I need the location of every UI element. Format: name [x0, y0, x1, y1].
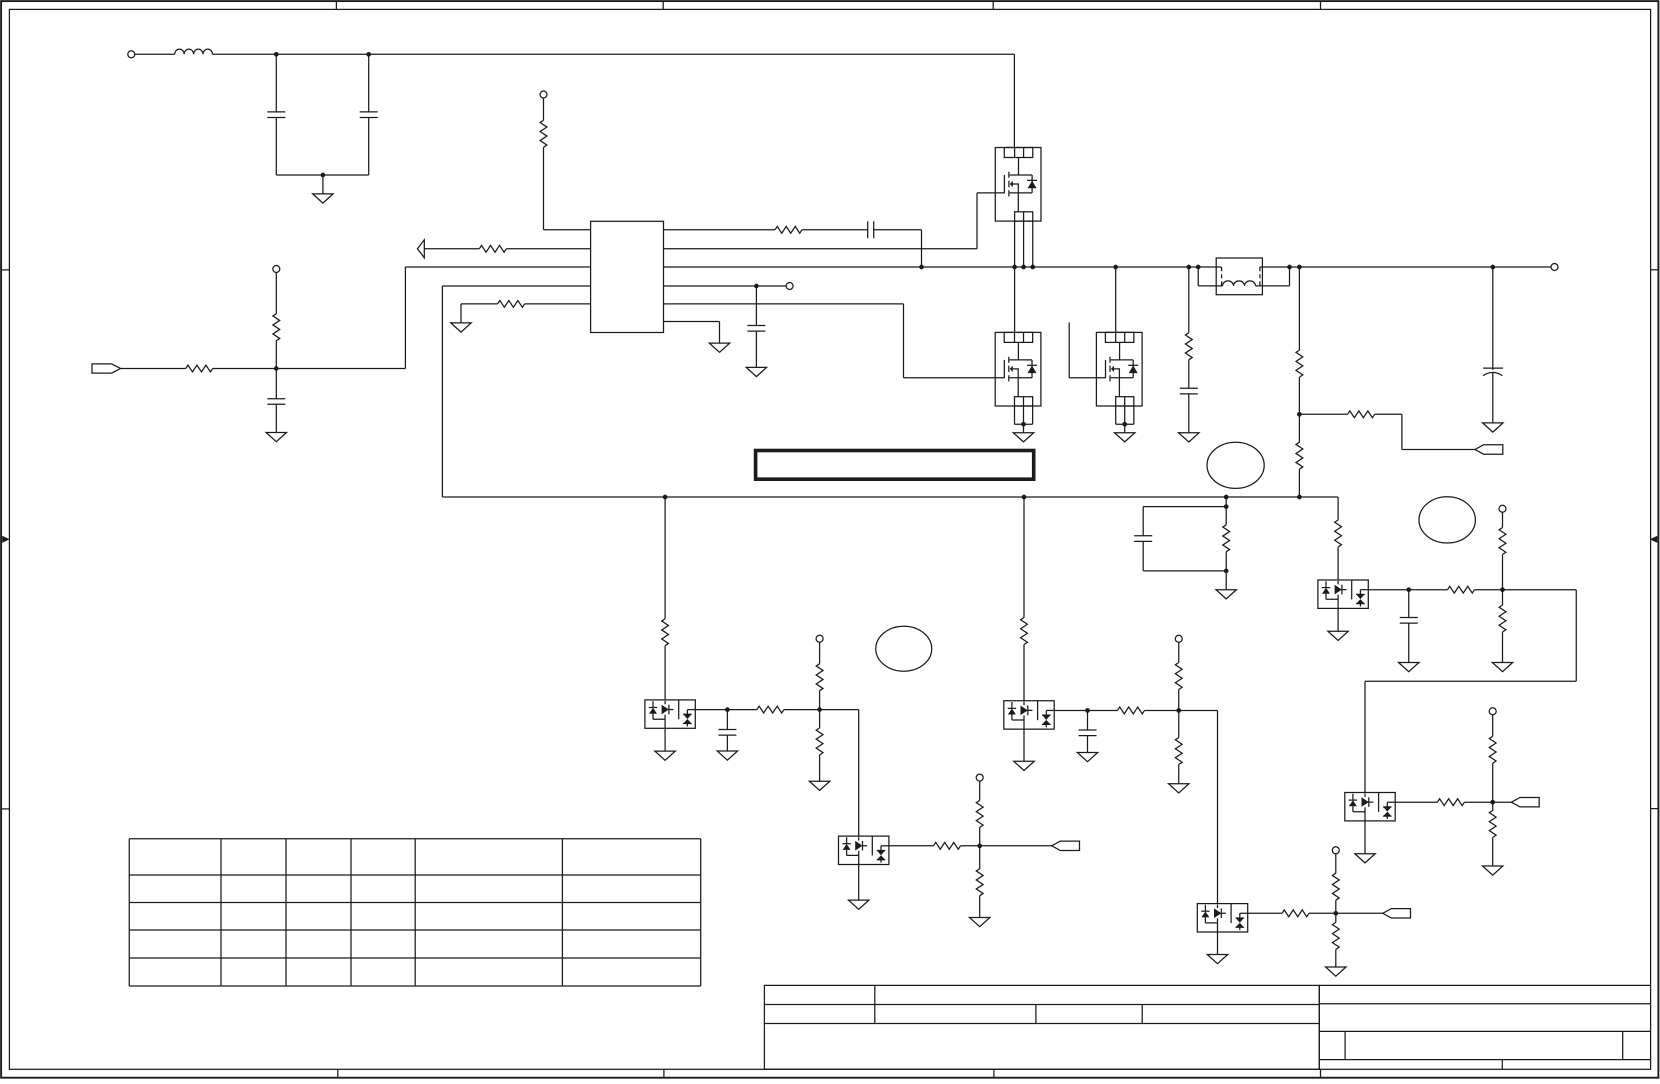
junction VCC [754, 284, 759, 289]
ground [1179, 433, 1199, 442]
ground [655, 751, 675, 760]
wire R15 to ground [819, 755, 821, 781]
resistor R12 [662, 619, 669, 646]
capacitor C5 [747, 326, 765, 332]
capacitor C10 [1079, 730, 1097, 736]
ground [1115, 433, 1135, 442]
ground [1169, 784, 1189, 793]
ground [1207, 955, 1227, 964]
wire sense to R19 [1023, 497, 1025, 618]
wire node to R18 [979, 846, 981, 869]
wire R4 to FB node [213, 368, 406, 370]
junction Q1 pin a [1012, 265, 1017, 270]
resistor R29 [1499, 605, 1506, 632]
wire Q1 source pin c [1032, 221, 1034, 267]
wire SW to Q3 drain [1115, 267, 1117, 332]
inductor L2 package [1216, 258, 1262, 295]
wire sense line [442, 496, 1338, 498]
inductor L1 [175, 49, 213, 54]
wire SW bus [664, 266, 1222, 268]
wire ch2 to ch4 [1179, 710, 1218, 903]
wire R14 to node [819, 691, 821, 710]
resistor R13 [757, 706, 784, 713]
resistor R8 [1296, 350, 1303, 377]
wire ch5 to ch6 [1365, 590, 1576, 793]
inductor L2 internal pin left [1221, 267, 1223, 286]
ground [709, 343, 729, 352]
terminal EN pullup [540, 91, 547, 98]
junction sense ch1 [663, 495, 668, 500]
ground [1077, 753, 1097, 762]
junction ch3 out [977, 843, 982, 848]
wire Q2 source pins [1015, 406, 1033, 424]
capacitor C11 [1400, 618, 1418, 624]
capacitor C9 [718, 730, 736, 736]
wire R5 to FB node [275, 341, 277, 369]
wire terminal to R24 [1335, 854, 1337, 873]
wire D2 to ground [858, 865, 860, 901]
terminal ch4 pullup [1332, 847, 1339, 854]
wire D4 to ground [1217, 932, 1219, 955]
junction ch1 out [817, 707, 822, 712]
resistor R11 [1223, 525, 1230, 552]
wire R9 to FB line [1298, 469, 1300, 497]
ground [1216, 590, 1236, 599]
terminal VOUT [1551, 264, 1558, 271]
resistor R22 [1175, 738, 1182, 765]
wire SW to Q2 drain [1014, 267, 1016, 332]
wire Q3 gate stub [1069, 323, 1105, 378]
wire ch1 to ch3 [820, 710, 859, 837]
wire node to R22 [1178, 710, 1180, 737]
port VFB flag [1475, 445, 1503, 454]
resistor R28 [1499, 528, 1506, 555]
junction sense RC [1224, 495, 1229, 500]
wire R20 to ch2 out [1145, 709, 1179, 711]
wire D5 to ground [1337, 608, 1339, 631]
wire R6 to C4 [802, 229, 868, 231]
wire C10 to ground [1087, 736, 1089, 753]
ground [1492, 663, 1512, 672]
resistor R20 [1118, 707, 1145, 714]
wire terminal to R28 [1502, 512, 1504, 527]
wire C7 to ground [1492, 372, 1494, 423]
wire node to R13 [727, 709, 757, 711]
wire R23 to ch4 out [1309, 912, 1336, 914]
wire R32 to ground [1492, 837, 1494, 866]
terminal VCC [786, 283, 793, 290]
junction sense ch2 [1022, 495, 1027, 500]
wire to C1 [275, 54, 277, 112]
wire R13 to ch1 out [784, 709, 820, 711]
wire mid to R9 [1298, 414, 1300, 442]
wire Q3 source to ground [1124, 424, 1126, 433]
junction ch6 out [1490, 800, 1495, 805]
resistor R4 [186, 365, 213, 372]
junction divider mid [1297, 412, 1302, 417]
ground [1326, 967, 1346, 976]
port VSNS input flag [92, 364, 121, 373]
wire C8 to comp bottom [1143, 541, 1226, 571]
wire R16 to ch3 out [961, 845, 980, 847]
junction comp top [1224, 504, 1229, 509]
junction VOUT divider [1297, 265, 1302, 270]
resistor R21 [1175, 663, 1182, 690]
ground [809, 781, 829, 790]
wire U1 to R3 [525, 303, 591, 305]
terminal ch6 pullup [1489, 708, 1496, 715]
wire U1 VCC [664, 285, 787, 287]
resistor R15 [816, 728, 823, 755]
resistor R9 [1296, 442, 1303, 469]
wire to C11 [1408, 590, 1410, 618]
wire D6 to ground [1364, 821, 1366, 854]
resistor R6 [775, 226, 802, 233]
wire Q1 source pin a [1014, 221, 1016, 267]
junction comp bottom [1224, 569, 1229, 574]
wire D3 to node [1054, 709, 1087, 711]
junction VIN/C1 [274, 52, 279, 57]
wire input to L1 [135, 53, 175, 55]
wire comp to ground [1225, 571, 1227, 590]
wire U1 HG to Q1 gate [664, 193, 1005, 249]
capacitor C4 [868, 221, 874, 238]
diode D6 ESD array [1345, 793, 1395, 821]
resistor R31 [1489, 736, 1496, 763]
wire C5 to ground [755, 331, 757, 367]
resistor R7 [1185, 333, 1192, 360]
capacitor C8 [1134, 536, 1152, 542]
wire C11 to ground [1408, 623, 1410, 662]
ground [1328, 631, 1348, 640]
wire to comp node [1225, 497, 1227, 507]
ground [313, 194, 333, 203]
wire C6 to ground [1188, 394, 1190, 433]
ground [849, 900, 869, 909]
terminal VIN [128, 51, 135, 58]
ground [746, 367, 766, 376]
wire R19 to D3 [1023, 645, 1025, 701]
junction VIN/C2 [366, 52, 371, 57]
ground [1483, 866, 1503, 875]
port ch6 flag [1511, 798, 1539, 807]
node circle A [876, 626, 932, 671]
resistor R24 [1332, 873, 1339, 900]
junction ch2 out [1176, 708, 1181, 713]
resistor R27 [1448, 586, 1475, 593]
wire node to R15 [819, 710, 821, 728]
resistor R10 [1348, 411, 1375, 418]
diode D3 ESD array [1004, 701, 1054, 729]
inductor L2 winding [1223, 281, 1256, 286]
wire terminal to R5 [275, 273, 277, 314]
wire D1 to node [695, 709, 727, 711]
resistor R16 [934, 842, 961, 849]
ground [1399, 663, 1419, 672]
resistor R3 [498, 301, 525, 308]
wire U1 BOOT to R6 [664, 229, 776, 231]
diode D4 ESD array [1197, 904, 1247, 932]
ground [1014, 761, 1034, 770]
wire R31 to node [1492, 763, 1494, 802]
wire R26 to D5 [1337, 547, 1339, 580]
node circle C [1419, 497, 1475, 543]
wire R30 to ch6 out [1464, 801, 1492, 803]
junction gnd rail [321, 173, 326, 178]
junction sense divider [1297, 495, 1302, 500]
wire R2 to U1 [506, 248, 590, 250]
junction Q2 source [1021, 422, 1026, 427]
node circle B [1207, 442, 1264, 488]
resistor R2 [479, 245, 506, 252]
wire R10 to port [1375, 414, 1475, 449]
wire comp to C8 [1143, 507, 1226, 536]
junction Q3 source [1122, 422, 1127, 427]
diode D2 ESD array [839, 836, 889, 864]
wire C1-C2 bottom [276, 174, 368, 176]
wire Q2 source to ground [1023, 424, 1025, 433]
wire D6 to R30 [1395, 801, 1437, 803]
junction SW/boot [919, 265, 924, 270]
wire terminal to R31 [1492, 715, 1494, 737]
capacitor C3 [267, 399, 285, 405]
wire R8 to mid node [1298, 377, 1300, 414]
ground [1483, 423, 1503, 432]
wire D2 to R16 [889, 845, 934, 847]
wire comp to R11 [1225, 507, 1227, 525]
wire ch3 to port [980, 845, 1052, 847]
wire R29 to ground [1502, 632, 1504, 663]
wire D3 to ground [1023, 729, 1025, 761]
terminal ch2 pullup [1175, 635, 1182, 642]
junction snubber [1186, 265, 1191, 270]
resistor R14 [816, 664, 823, 691]
port ch3 flag [1052, 841, 1080, 850]
resistor R25 [1332, 922, 1339, 949]
resistor R17 [976, 800, 983, 827]
wire R28 to node [1502, 555, 1504, 590]
wire mid to R10 [1299, 413, 1347, 415]
capacitor C7 polarized [1483, 367, 1503, 370]
title block left [764, 985, 1319, 1069]
wire to C2 [368, 54, 370, 112]
wire sense to R12 [664, 497, 666, 619]
terminal ch3 pullup [976, 774, 983, 781]
wire C1 to gnd rail [275, 118, 277, 176]
wire U1 FB to divider node [405, 267, 590, 369]
wire R7 to C6 [1188, 360, 1190, 389]
junction Q1 pin b [1021, 265, 1026, 270]
wire to C10 [1087, 710, 1089, 730]
revision table [129, 839, 700, 986]
wire R27 to ch5 out [1475, 589, 1503, 591]
resistor R26 [1335, 520, 1342, 547]
junction ch5 out [1500, 587, 1505, 592]
junction VOUT cap [1490, 265, 1495, 270]
transistor Q2 low-side [995, 332, 1041, 406]
port ch4 flag [1383, 909, 1411, 918]
wire node to R29 [1502, 590, 1504, 605]
wire R21 to node [1178, 690, 1180, 711]
terminal ch5 pullup [1499, 505, 1506, 512]
junction L2 pad in [1196, 265, 1201, 270]
inductor L2 internal pin right [1259, 267, 1261, 286]
wire to C9 [726, 710, 728, 730]
wire U1 GND pin [664, 322, 720, 344]
junction ch1 filter [725, 707, 730, 712]
wire to ground [322, 175, 324, 194]
terminal FB pullup [273, 266, 280, 273]
diode D1 ESD array [645, 700, 695, 728]
wire D5 to node [1368, 589, 1408, 591]
wire terminal to R14 [819, 642, 821, 664]
wire C2 to gnd rail [368, 118, 370, 176]
wire L2 lower in [1198, 267, 1222, 286]
wire node to R25 [1335, 913, 1337, 922]
wire R22 to ground [1178, 765, 1180, 784]
wire Q3 source pins [1116, 406, 1134, 424]
wire R11 bottom [1225, 552, 1227, 571]
wire C4 to SW bus [874, 230, 922, 267]
wire VOUT to R8 [1298, 267, 1300, 350]
wire R24 to node [1335, 900, 1337, 913]
resistor R5 [273, 314, 280, 341]
wire VIN bus [213, 53, 1015, 55]
ground [1013, 433, 1033, 442]
wire sense to R26 [1337, 497, 1339, 520]
wire D4 to R23 [1248, 912, 1282, 914]
wire node to R32 [1492, 802, 1494, 810]
transistor Q1 high-side [995, 148, 1041, 222]
junction Q1 pin c [1030, 265, 1035, 270]
wire U1 LG to Q2 gate [664, 304, 1005, 378]
wire to R7 [1188, 267, 1190, 333]
wire C9 to ground [726, 735, 728, 751]
junction L2 pad out [1287, 265, 1292, 270]
wire VOUT bus [1260, 266, 1551, 268]
wire R17 to node [979, 827, 981, 845]
wire node to R20 [1088, 709, 1118, 711]
junction Q3 drain [1113, 265, 1118, 270]
capacitor C1 [267, 112, 285, 118]
note box [756, 451, 1034, 480]
ground [1355, 854, 1375, 863]
diode D5 ESD array [1318, 580, 1368, 608]
wire terminal to R21 [1178, 642, 1180, 662]
wire R25 to ground [1335, 949, 1337, 967]
wire VOUT to C7 [1492, 267, 1494, 367]
wire FB node to C3 [275, 369, 277, 399]
terminal ch1 pullup [816, 635, 823, 642]
junction ch2 filter [1085, 708, 1090, 713]
junction ch4 out [1333, 911, 1338, 916]
resistor R1 [540, 120, 547, 147]
ground [451, 323, 471, 332]
wire ch4 to port [1336, 912, 1383, 914]
wire R18 to ground [979, 896, 981, 918]
wire D1 to ground [664, 728, 666, 751]
wire ch6 to port [1493, 801, 1512, 803]
wire C3 to ground [275, 404, 277, 432]
capacitor C2 [360, 112, 378, 118]
ground [266, 433, 286, 442]
wire L2 lower out [1256, 267, 1290, 286]
title block right [1319, 985, 1650, 1069]
transistor Q3 low-side [1096, 332, 1142, 406]
wire VCC to C5 [755, 286, 757, 326]
resistor R18 [976, 869, 983, 896]
resistor R23 [1282, 910, 1309, 917]
ground [717, 751, 737, 760]
wire VIN to Q1 drain [1013, 54, 1015, 147]
capacitor C6 [1180, 388, 1198, 394]
resistor R32 [1489, 810, 1496, 837]
wire node to R27 [1409, 589, 1448, 591]
ground [970, 918, 990, 927]
controller IC U1 [591, 221, 664, 332]
resistor R30 [1437, 799, 1464, 806]
wire R12 to D1 [664, 646, 666, 700]
wire R3 to ground [461, 304, 498, 323]
junction FB node [274, 366, 279, 371]
wire U1 sense down [442, 286, 590, 497]
wire arrow to R2 [424, 248, 479, 250]
wire terminal to R1 [543, 98, 545, 120]
resistor R19 [1021, 618, 1028, 645]
wire R1 to U1 pin EN [544, 147, 591, 230]
junction ch5 filter [1406, 587, 1411, 592]
wire flag to R4 [121, 368, 186, 370]
wire terminal to R17 [979, 781, 981, 800]
wire Q1 source pin b [1023, 221, 1025, 267]
net arrow PGOOD [417, 240, 424, 258]
